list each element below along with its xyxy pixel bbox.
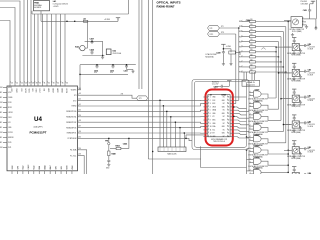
- svg-text:GND: GND: [222, 133, 225, 135]
- wire: [81, 95, 137, 98]
- svg-text:25: 25: [21, 83, 23, 85]
- wire: [23, 0, 25, 81]
- svg-text:3.3V LINE: 3.3V LINE: [301, 3, 308, 5]
- CN45 pin 11: [203, 129, 207, 131]
- optical module U48 TORX: [292, 89, 296, 92]
- svg-text:+3.3VD: +3.3VD: [104, 19, 111, 21]
- wire: [37, 14, 39, 81]
- power rail +3.3VD: [41, 20, 118, 22]
- wire: [0, 21, 10, 81]
- svg-text:C446: C446: [123, 142, 127, 145]
- svg-text:11: 11: [210, 129, 212, 131]
- svg-text:30: 30: [39, 83, 41, 85]
- connector CN45 body: [208, 95, 230, 137]
- svg-text:RXIN5/GPO1: RXIN5/GPO1: [67, 133, 77, 135]
- svg-text:220: 220: [250, 44, 253, 46]
- svg-text:C434: C434: [94, 69, 98, 72]
- CN45 pin 7: [203, 116, 207, 118]
- svg-text:PC, SCL: PC, SCL: [70, 155, 76, 157]
- wire: [148, 158, 200, 160]
- svg-text:5% B CH: 5% B CH: [308, 152, 314, 154]
- ground: [101, 56, 104, 59]
- connector outline inner: [195, 82, 247, 148]
- wire: [147, 0, 149, 159]
- resistor network RA41: [158, 147, 186, 152]
- board interconnect box: [32, 13, 129, 15]
- U4 top pin 24: [14, 81, 16, 87]
- U4 right pin 34: [78, 149, 82, 151]
- svg-text:28: 28: [32, 83, 34, 85]
- wire: [233, 103, 236, 105]
- svg-text:+ 1u50 3.3V: + 1u50 3.3V: [308, 150, 315, 152]
- wire: [30, 0, 32, 81]
- svg-text:18: 18: [228, 123, 230, 125]
- connector outline outer: [192, 80, 249, 150]
- U4 left pin 12: [3, 142, 7, 144]
- svg-text:NC: NC: [223, 110, 225, 112]
- wire: [261, 150, 288, 154]
- U4 top pin 25: [19, 81, 21, 87]
- ground: [230, 54, 232, 62]
- inductor L42: [83, 20, 87, 22]
- bus wire RXIN: [280, 37, 282, 121]
- svg-text:0.1u 25V: 0.1u 25V: [212, 83, 219, 85]
- capacitor C433: [125, 64, 128, 68]
- wire: [81, 132, 205, 134]
- optical module U47 TORX: [292, 63, 296, 66]
- svg-text:21: 21: [228, 113, 230, 115]
- svg-text:33: 33: [79, 154, 81, 156]
- U4 right pin 43: [78, 94, 82, 96]
- net label XTI: [137, 96, 148, 101]
- svg-text:15: 15: [228, 133, 230, 135]
- optical module U45 TORX: [311, 1, 315, 4]
- svg-text:19: 19: [228, 120, 230, 122]
- junction: [246, 136, 247, 137]
- U4 bottom pin 23: [71, 171, 73, 174]
- capacitor C447: [108, 156, 110, 160]
- wire: [248, 125, 251, 127]
- bus wire RXIN: [282, 32, 284, 132]
- svg-text:40: 40: [79, 109, 81, 111]
- wire: [288, 149, 290, 151]
- U4 bottom pin 14: [22, 171, 24, 174]
- U4 left pin 4: [3, 102, 7, 104]
- signal assignment box: [242, 80, 260, 86]
- U4 bottom pin 18: [44, 171, 46, 174]
- U4 bottom pin 21: [60, 171, 62, 174]
- wire: [79, 65, 81, 90]
- wire: [215, 85, 220, 87]
- svg-text:RX9: RX9: [239, 67, 242, 69]
- svg-text:RXIN0: RXIN0: [72, 106, 77, 108]
- svg-text:5% B CH: 5% B CH: [308, 100, 314, 102]
- svg-text:BCK: BCK: [31, 89, 33, 92]
- CN45 pin 18: [230, 122, 233, 124]
- svg-text:RX7: RX7: [239, 56, 242, 58]
- U4 top pin 36: [64, 81, 66, 87]
- svg-text:NC: NC: [223, 129, 225, 131]
- U4 top pin 35: [60, 81, 62, 87]
- CN45 pin 2: [203, 99, 207, 101]
- wire: [233, 123, 249, 125]
- wire: [247, 148, 250, 150]
- U4 right pin 40: [78, 110, 82, 112]
- optical module U51 TORX: [292, 167, 296, 170]
- U4 right pin 37: [78, 127, 82, 129]
- svg-text:0.1u: 0.1u: [110, 72, 113, 74]
- svg-text:NC: NC: [223, 136, 225, 138]
- oscillator buffer IC42: [106, 49, 111, 55]
- svg-text:R462: R462: [116, 144, 120, 147]
- svg-text:NC: NC: [223, 123, 225, 125]
- CN45 pin 24: [230, 103, 233, 105]
- svg-text:GND: GND: [8, 127, 11, 129]
- junction: [233, 106, 234, 107]
- power +3.3VD: [227, 81, 231, 84]
- svg-text:INT1: INT1: [8, 147, 11, 149]
- U4 bottom pin 19: [49, 171, 51, 174]
- U4 left pin 9: [3, 127, 7, 129]
- svg-text:+3.3VD: +3.3VD: [226, 46, 232, 48]
- wire: [60, 14, 62, 81]
- svg-text:GND: GND: [222, 106, 225, 108]
- svg-text:38: 38: [79, 120, 81, 122]
- svg-text:C435: C435: [110, 69, 114, 72]
- wire: [247, 159, 250, 161]
- wire: [261, 171, 288, 173]
- svg-text:GND: GND: [212, 123, 215, 125]
- wire: [81, 138, 192, 140]
- CN45 pin 23: [230, 106, 233, 108]
- svg-text:SDTO1: SDTO1: [8, 132, 13, 134]
- U4 top pin 28: [30, 81, 32, 87]
- svg-text:+ 1u50 3.3V: + 1u50 3.3V: [308, 124, 315, 126]
- wire: [246, 150, 248, 175]
- wire: [223, 48, 231, 50]
- svg-text:22: 22: [228, 110, 230, 112]
- wire: [316, 0, 318, 19]
- svg-text:U4: U4: [34, 116, 42, 123]
- U4 top pin 29: [34, 81, 36, 87]
- CN45 pin 8: [203, 119, 207, 121]
- wire: [233, 107, 246, 109]
- svg-text:26: 26: [228, 97, 230, 99]
- CN45 pin 20: [230, 116, 233, 118]
- svg-text:RX4: RX4: [239, 41, 242, 43]
- svg-text:601SN1D: 601SN1D: [34, 7, 42, 9]
- wire: [261, 161, 288, 165]
- svg-text:5% B CH: 5% B CH: [308, 74, 314, 76]
- svg-text:GND: GND: [212, 113, 215, 115]
- wire: [80, 64, 136, 66]
- svg-text:41: 41: [79, 104, 81, 106]
- svg-text:GND: GND: [222, 100, 225, 102]
- junction: [233, 116, 234, 117]
- wire: [247, 170, 250, 172]
- wire: [162, 106, 164, 147]
- svg-text:26: 26: [25, 83, 27, 85]
- svg-text:BCK: BCK: [212, 103, 215, 105]
- ground: [222, 54, 224, 62]
- svg-text:LRCK: LRCK: [212, 106, 216, 108]
- svg-text:RX1: RX1: [239, 26, 242, 28]
- svg-text:17: 17: [228, 126, 230, 128]
- svg-text:SCK: SCK: [212, 100, 215, 102]
- wire: [81, 127, 205, 128]
- svg-text:INT: INT: [212, 133, 214, 135]
- IC U4 PCM9211PT body: [7, 86, 78, 171]
- CN45 pin 14: [230, 135, 233, 137]
- wire: [261, 94, 276, 98]
- wire: [183, 133, 185, 147]
- wire: [186, 134, 205, 136]
- U4 right pin 41: [78, 105, 82, 107]
- U4 bottom pin 15: [27, 171, 29, 174]
- CN45 pin 15: [230, 132, 233, 134]
- svg-text:25: 25: [228, 100, 230, 102]
- wire: [233, 133, 246, 135]
- wire: [276, 46, 291, 48]
- svg-text:R438 470: R438 470: [212, 81, 219, 83]
- U4 top pin 26: [23, 81, 25, 87]
- U4 left pin 11: [3, 137, 7, 139]
- U4 bottom pin 17: [38, 171, 40, 174]
- power +3.3VD: [221, 44, 225, 47]
- U4 left pin 1: [3, 87, 7, 89]
- U4 bottom pin 13: [16, 171, 18, 174]
- U4 left pin 7: [3, 117, 7, 119]
- junction: [246, 150, 247, 151]
- wire: [81, 156, 84, 174]
- wire: [0, 8, 15, 81]
- svg-text:R448: R448: [112, 152, 116, 155]
- wire: [81, 116, 205, 118]
- svg-text:33: 33: [53, 83, 55, 85]
- U4 right pin 44: [78, 89, 82, 91]
- U4 top pin 34: [55, 81, 57, 87]
- U4 top pin 33: [51, 81, 53, 87]
- svg-text:+ 1u50 3.3V: + 1u50 3.3V: [308, 98, 315, 100]
- wire: [81, 150, 87, 174]
- wire: [81, 122, 205, 123]
- U4 right pin 36: [78, 132, 82, 134]
- svg-text:NC: NC: [223, 97, 225, 99]
- CN45 pin 6: [203, 112, 207, 114]
- svg-text:CN45: CN45: [221, 93, 226, 96]
- U4 top pin 31: [42, 81, 44, 87]
- svg-text:PCMT/GDM: PCMT/GDM: [68, 138, 77, 140]
- CN45 pin 10: [203, 126, 207, 128]
- svg-text:220: 220: [250, 59, 253, 61]
- svg-text:13: 13: [210, 136, 212, 138]
- svg-text:43: 43: [79, 93, 81, 95]
- svg-text:34: 34: [57, 83, 59, 85]
- wire: [138, 0, 140, 89]
- svg-text:35: 35: [62, 83, 64, 85]
- wire: [64, 14, 66, 81]
- wire: [233, 99, 239, 101]
- svg-text:37: 37: [79, 126, 81, 128]
- svg-text:IC42: IC42: [113, 50, 117, 53]
- CN45 pin 1: [203, 96, 207, 98]
- junction: [238, 27, 239, 28]
- capacitor C434: [96, 64, 99, 68]
- CN45 pin 21: [230, 112, 233, 114]
- svg-text:220: 220: [250, 49, 253, 51]
- svg-text:24: 24: [16, 83, 18, 85]
- wire: [174, 122, 176, 147]
- CN45 pin 4: [203, 106, 207, 108]
- svg-text:GND: GND: [222, 113, 225, 115]
- svg-text:220: 220: [250, 69, 253, 71]
- wire: [233, 117, 249, 119]
- U4 top pin 27: [27, 81, 29, 87]
- svg-text:RX5: RX5: [239, 46, 242, 48]
- optical module U46 TORX: [292, 38, 296, 41]
- svg-text:10: 10: [210, 126, 212, 128]
- wire: [233, 130, 249, 132]
- svg-text:RXIN2/XTLN1: RXIN2/XTLN1: [66, 117, 76, 119]
- svg-text:LRCK1: LRCK1: [8, 112, 13, 114]
- svg-text:14: 14: [228, 136, 230, 138]
- bus wire RXIN: [287, 22, 289, 173]
- wire: [170, 117, 172, 147]
- svg-text:74LVC1G04: 74LVC1G04: [113, 53, 122, 55]
- wire: [80, 73, 128, 75]
- svg-text:C438: C438: [216, 52, 220, 55]
- svg-text:5% B CH: 5% B CH: [308, 126, 314, 128]
- wire: [27, 0, 29, 81]
- bus wire RXIN: [275, 47, 277, 98]
- wire: [251, 72, 253, 80]
- svg-text:INT0: INT0: [8, 142, 11, 144]
- wire: [159, 100, 161, 147]
- svg-text:VDDRX: VDDRX: [71, 90, 78, 92]
- svg-text:27: 27: [29, 83, 31, 85]
- svg-text:220: 220: [250, 19, 253, 21]
- svg-text:MCKI: MCKI: [8, 87, 12, 89]
- svg-text:MCK: MCK: [212, 120, 215, 122]
- capacitor C435: [112, 64, 115, 68]
- svg-text:12: 12: [210, 133, 212, 135]
- svg-text:39: 39: [79, 115, 81, 117]
- U4 bottom pin 20: [55, 171, 57, 174]
- svg-text:PCM9211PT: PCM9211PT: [29, 131, 46, 135]
- svg-text:RXIN1/XTLN0: RXIN1/XTLN0: [66, 111, 76, 113]
- svg-text:23: 23: [11, 83, 13, 85]
- svg-text:220: 220: [250, 24, 253, 26]
- U4 right pin 42: [78, 100, 82, 102]
- wire: [283, 124, 290, 126]
- svg-text:220: 220: [250, 64, 253, 66]
- wire: [233, 110, 249, 112]
- wire: [248, 114, 251, 116]
- wire: [166, 111, 168, 147]
- svg-text:RX8: RX8: [239, 62, 242, 64]
- svg-text:+ 1u50 3.3V: + 1u50 3.3V: [308, 73, 315, 75]
- CN45 pin 17: [230, 126, 233, 128]
- wire: [81, 110, 205, 111]
- bus wire RXIN: [278, 42, 280, 110]
- svg-text:VDD: VDD: [8, 92, 11, 94]
- ground: [131, 70, 134, 73]
- wire: [141, 0, 143, 89]
- U4 bottom pin 22: [66, 171, 68, 174]
- wire: [261, 128, 283, 132]
- svg-text:SCL: SCL: [212, 129, 215, 131]
- U4 left pin 13: [3, 147, 7, 149]
- svg-text:ERROR: ERROR: [8, 137, 13, 139]
- wire: [233, 137, 249, 139]
- wire: [85, 40, 103, 42]
- wire hook: [262, 48, 266, 50]
- wire: [233, 127, 246, 129]
- svg-text:23: 23: [228, 106, 230, 108]
- svg-text:NC: NC: [223, 103, 225, 105]
- ground: [107, 163, 110, 166]
- U4 left pin 2: [3, 92, 7, 94]
- CN45 pin 19: [230, 119, 233, 121]
- svg-text:GND: GND: [212, 97, 215, 99]
- svg-text:LRCK: LRCK: [34, 89, 36, 93]
- svg-text:42: 42: [79, 99, 81, 101]
- U4 left pin 5: [3, 107, 7, 109]
- svg-text:31: 31: [44, 83, 46, 85]
- U4 bottom pin 16: [33, 171, 35, 174]
- CN45 pin 5: [203, 109, 207, 111]
- U4 left pin 3: [3, 97, 7, 99]
- svg-text:24: 24: [228, 103, 230, 105]
- svg-text:36: 36: [66, 83, 68, 85]
- CN45 pin 13: [203, 135, 207, 137]
- svg-text:220: 220: [250, 54, 253, 56]
- U4 right pin 33: [78, 155, 82, 157]
- svg-text:16: 16: [228, 129, 230, 131]
- wire: [34, 14, 36, 81]
- wire: [253, 72, 255, 80]
- wire: [261, 105, 278, 109]
- svg-text:C452: C452: [214, 85, 218, 88]
- svg-text:RX IN (DOOR): RX IN (DOOR): [292, 106, 301, 108]
- CN45 pin 16: [230, 129, 233, 131]
- bus wire RXIN: [285, 27, 287, 143]
- CN45 pin 26: [230, 96, 233, 98]
- CN45 pin 12: [203, 132, 207, 134]
- wire: [51, 14, 53, 81]
- U4 right pin 35: [78, 137, 82, 139]
- svg-text:XTO: XTO: [210, 34, 214, 36]
- svg-text:DIN1: DIN1: [8, 117, 11, 119]
- wire: [279, 72, 291, 74]
- svg-text:35: 35: [79, 136, 81, 138]
- svg-text:DOUT: DOUT: [38, 89, 40, 93]
- svg-text:RA41 4x47k: RA41 4x47k: [167, 153, 176, 156]
- svg-text:GND: GND: [222, 120, 225, 122]
- svg-text:BCK1: BCK1: [8, 107, 12, 109]
- CN45 pin 25: [230, 99, 233, 101]
- wire: [152, 0, 154, 174]
- wire: [55, 14, 57, 81]
- svg-text:29: 29: [36, 83, 38, 85]
- svg-text:J2: J2: [210, 94, 212, 96]
- svg-text:VCOM: VCOM: [65, 89, 67, 94]
- U4 left pin 8: [3, 122, 7, 124]
- svg-text:220: 220: [250, 34, 253, 36]
- svg-text:RXIN0-RXIN7: RXIN0-RXIN7: [157, 4, 175, 8]
- power +3.3VD: [116, 18, 120, 21]
- svg-text:PS-LX45: PS-LX45: [301, 1, 307, 3]
